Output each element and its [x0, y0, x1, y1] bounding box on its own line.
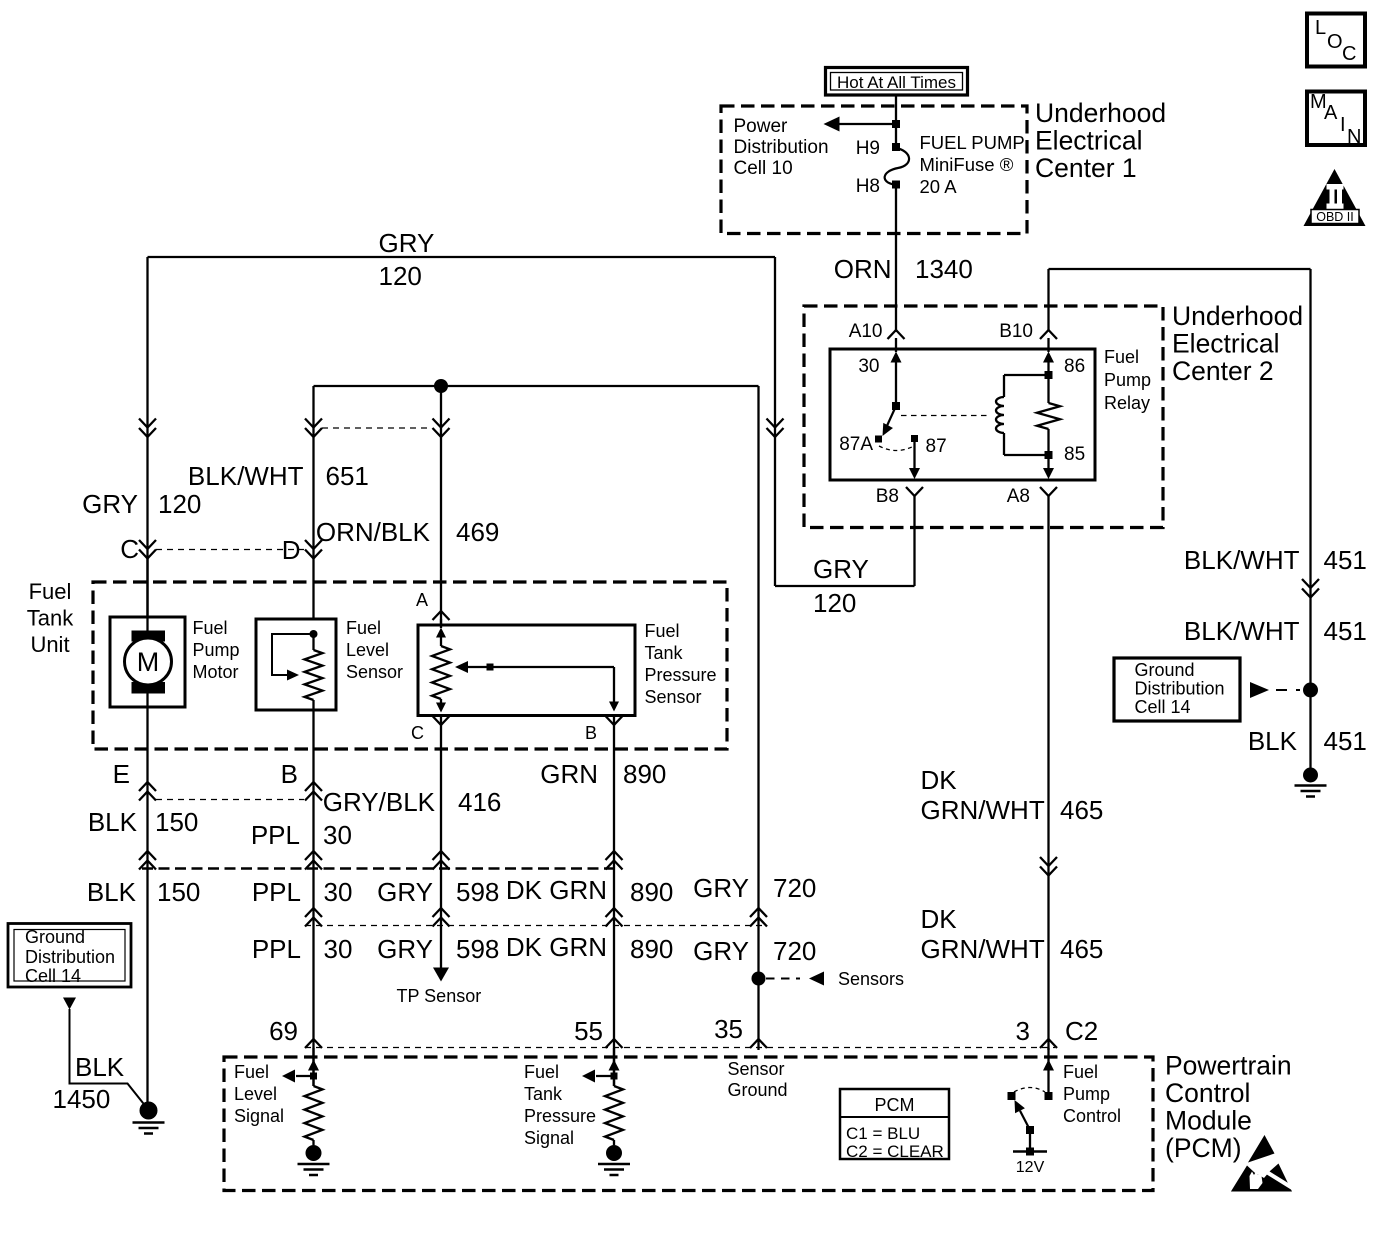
svg-text:Signal: Signal — [524, 1128, 574, 1148]
svg-text:890: 890 — [630, 934, 673, 964]
svg-text:N: N — [1347, 126, 1361, 148]
svg-text:Fuel: Fuel — [346, 618, 381, 638]
relay pin 85 — [1045, 451, 1053, 459]
svg-text:DK: DK — [921, 765, 958, 795]
svg-text:12V: 12V — [1016, 1159, 1045, 1176]
svg-text:Electrical: Electrical — [1035, 126, 1143, 156]
fuel pump motor M1 box — [110, 617, 185, 707]
svg-text:30: 30 — [324, 877, 353, 907]
wire to TP sensor arrow — [433, 968, 449, 982]
svg-text:FUEL PUMP: FUEL PUMP — [920, 132, 1025, 153]
svg-text:C2 = CLEAR: C2 = CLEAR — [846, 1142, 944, 1161]
svg-text:PPL: PPL — [252, 877, 301, 907]
ground symbol fuel level — [306, 1145, 322, 1161]
svg-text:B10: B10 — [999, 321, 1033, 342]
Powertrain Control Module dashed box — [224, 1057, 1153, 1191]
relay box Fuel Pump Relay — [830, 349, 1095, 480]
svg-text:GRY: GRY — [813, 554, 869, 584]
fuel level signal pull-up resistor — [305, 1086, 323, 1140]
ground symbol left — [140, 1102, 158, 1120]
row1 connector BLK 150 — [139, 851, 156, 860]
svg-text:ORN: ORN — [834, 254, 892, 284]
svg-text:C1 = BLU: C1 = BLU — [846, 1124, 920, 1143]
svg-text:598: 598 — [456, 877, 499, 907]
connector mate dashed line E-B — [156, 799, 304, 801]
wire DK GRN/WHT 465 vertical relay A8 to PCM — [1047, 496, 1049, 1050]
motor brush top — [132, 631, 166, 642]
svg-text:A8: A8 — [1007, 486, 1030, 507]
connector mate dashed line 651-469 — [322, 427, 432, 429]
svg-text:3: 3 — [1016, 1016, 1030, 1046]
wire C into motor — [146, 558, 148, 618]
svg-text:L: L — [1315, 17, 1326, 39]
svg-text:GRY: GRY — [379, 228, 435, 258]
svg-text:BLK/WHT: BLK/WHT — [1184, 545, 1300, 575]
svg-text:Fuel: Fuel — [1104, 347, 1139, 367]
svg-text:GRN/WHT: GRN/WHT — [921, 795, 1045, 825]
fuel tank pressure pull-up resistor — [605, 1086, 623, 1140]
wire BLK 150 / motor ground vertical — [146, 706, 148, 1104]
svg-text:651: 651 — [326, 461, 369, 491]
relay internal resistor — [1047, 375, 1049, 403]
relay pin 87 wire to B8 — [913, 442, 915, 469]
Hot At All Times box — [826, 68, 968, 96]
fuel tank pressure signal tap — [611, 1073, 618, 1080]
svg-text:Unit: Unit — [30, 632, 69, 657]
fuel pump control dashed arc — [1014, 1088, 1045, 1093]
dashed link to sensors — [766, 978, 800, 980]
svg-text:Ground: Ground — [1135, 660, 1195, 680]
connector mate dashed line C-D — [156, 549, 304, 551]
wire BLK/WHT 451 right vertical — [1309, 269, 1311, 768]
svg-text:465: 465 — [1060, 934, 1103, 964]
Underhood Electrical Center 2 dashed box — [804, 306, 1163, 528]
svg-text:20 A: 20 A — [920, 176, 958, 197]
junction node BLK 451 — [1303, 683, 1318, 698]
fuel pump control switch pivot — [1008, 1092, 1016, 1100]
OBD II symbol — [1304, 169, 1366, 226]
svg-text:55: 55 — [574, 1016, 603, 1046]
svg-text:Center 1: Center 1 — [1035, 153, 1137, 183]
wire sensor-ground bus horizontal 651/469/720 — [314, 385, 759, 387]
svg-text:30: 30 — [324, 934, 353, 964]
svg-text:Pressure: Pressure — [524, 1106, 596, 1126]
svg-text:Relay: Relay — [1104, 393, 1150, 413]
svg-text:Level: Level — [234, 1084, 277, 1104]
svg-text:598: 598 — [456, 934, 499, 964]
svg-text:M: M — [137, 647, 160, 677]
junction node sensors — [752, 972, 766, 986]
wire GRY 720 sensor ground vertical — [757, 386, 759, 1050]
inline connector BLK/WHT 451 — [1302, 589, 1319, 598]
level sensor junction dot — [310, 630, 318, 638]
relay dashed throw arc — [879, 446, 914, 451]
svg-text:416: 416 — [458, 787, 501, 817]
inline connector row2 dashed — [305, 925, 766, 927]
row1 connector GRY 598 — [433, 851, 450, 860]
relay dashed actuate link — [901, 415, 988, 417]
svg-text:Module: Module — [1165, 1106, 1252, 1136]
svg-text:1340: 1340 — [915, 254, 973, 284]
svg-text:35: 35 — [714, 1014, 743, 1044]
Fuel Tank Unit dashed box — [93, 582, 727, 749]
level sensor resistor — [312, 634, 314, 650]
svg-text:Underhood: Underhood — [1172, 301, 1303, 331]
fuel tank pressure signal wire in PCM — [613, 1048, 615, 1086]
svg-text:720: 720 — [773, 936, 816, 966]
wire GRY 120 riser to relay B8 — [913, 496, 915, 586]
motor wire through — [146, 617, 148, 638]
svg-text:Fuel: Fuel — [193, 618, 228, 638]
junction node ORN/BLK 469 tap — [434, 379, 448, 393]
wire BLK/WHT 651 vertical to pin D — [312, 386, 314, 620]
svg-text:30: 30 — [323, 820, 352, 850]
row2 connector GRY 720 — [750, 908, 767, 917]
svg-text:GRY: GRY — [693, 936, 749, 966]
svg-text:69: 69 — [269, 1016, 298, 1046]
svg-text:PPL: PPL — [252, 934, 301, 964]
fuel level sensor box — [256, 619, 336, 710]
relay switch pivot — [892, 402, 900, 410]
wire B10 riser — [1047, 269, 1049, 331]
wire ORN/BLK 469 vertical to pressure sensor A — [440, 386, 442, 626]
svg-text:BLK: BLK — [88, 807, 138, 837]
svg-text:Tank: Tank — [27, 606, 74, 631]
svg-text:Ground: Ground — [25, 927, 85, 947]
svg-text:C: C — [411, 723, 424, 743]
inline connector ORN/BLK 469 — [433, 428, 450, 437]
wire ORN 1340 / B10 feed horizontal — [1049, 268, 1311, 270]
svg-text:Center 2: Center 2 — [1172, 356, 1274, 386]
svg-text:Tank: Tank — [645, 643, 684, 663]
svg-text:Cell 10: Cell 10 — [734, 158, 793, 179]
Ground Distribution Cell 14 right box — [1114, 658, 1240, 721]
ESD symbol — [1248, 1135, 1275, 1163]
inline connector GRY 120 return — [767, 428, 784, 437]
svg-text:Sensors: Sensors — [838, 969, 904, 989]
svg-text:Hot At All Times: Hot At All Times — [837, 73, 956, 92]
svg-text:GRY/BLK: GRY/BLK — [323, 787, 436, 817]
ground symbol right — [1303, 768, 1318, 783]
svg-text:Distribution: Distribution — [734, 137, 829, 158]
relay coil — [1004, 374, 1049, 376]
svg-text:Pump: Pump — [193, 640, 240, 660]
svg-text:O: O — [1327, 31, 1343, 53]
fuel level signal tap — [310, 1073, 317, 1080]
svg-text:Pump: Pump — [1104, 370, 1151, 390]
svg-text:C2: C2 — [1065, 1016, 1098, 1046]
svg-text:GRY: GRY — [693, 873, 749, 903]
pin H8 — [892, 181, 900, 189]
svg-text:BLK: BLK — [87, 877, 137, 907]
svg-text:30: 30 — [858, 356, 879, 377]
connector 69 — [305, 1039, 322, 1048]
svg-text:87A: 87A — [839, 434, 873, 455]
svg-text:PCM: PCM — [875, 1095, 915, 1115]
motor circle M — [125, 638, 172, 685]
row1 connector DK GRN 890 — [606, 851, 623, 860]
svg-text:H9: H9 — [856, 138, 880, 159]
fuel level signal wire in PCM — [312, 1048, 314, 1086]
off-page arrow Ground Distribution left — [63, 998, 76, 1010]
svg-text:GRN/WHT: GRN/WHT — [921, 934, 1045, 964]
svg-text:GRY: GRY — [377, 934, 433, 964]
svg-text:TP Sensor: TP Sensor — [397, 986, 482, 1006]
wire GRY 120 return vertical — [774, 257, 776, 586]
svg-text:465: 465 — [1060, 795, 1103, 825]
svg-text:A10: A10 — [849, 321, 883, 342]
Underhood Electrical Center 1 dashed box — [721, 106, 1027, 234]
svg-text:Fuel: Fuel — [234, 1062, 269, 1082]
MAIN reference box — [1307, 92, 1365, 146]
Ground Distribution Cell 14 left box — [8, 924, 131, 988]
svg-text:Distribution: Distribution — [1135, 679, 1225, 699]
wire BLK 1450 — [70, 1009, 148, 1108]
svg-text:C: C — [1342, 43, 1356, 65]
svg-text:BLK/WHT: BLK/WHT — [1184, 616, 1300, 646]
svg-text:Fuel: Fuel — [645, 621, 680, 641]
svg-text:A: A — [1324, 102, 1338, 124]
junction node fuse feed — [892, 120, 900, 128]
svg-text:GRY: GRY — [82, 489, 138, 519]
relay switch arm — [886, 406, 896, 428]
svg-text:B: B — [281, 759, 298, 789]
svg-text:DK GRN: DK GRN — [506, 875, 607, 905]
svg-text:C: C — [120, 534, 139, 564]
fuel pump control switch node — [1045, 1092, 1053, 1100]
fuel pump control lower node — [1026, 1126, 1034, 1134]
svg-text:120: 120 — [813, 588, 856, 618]
fuel tank pressure sensor box — [418, 625, 635, 716]
fuel pump control wire in PCM — [1047, 1048, 1049, 1092]
inline connector GRY 120 left — [139, 428, 156, 437]
svg-text:A: A — [416, 590, 428, 610]
svg-text:B8: B8 — [876, 486, 899, 507]
svg-text:E: E — [113, 759, 130, 789]
svg-text:BLK/WHT: BLK/WHT — [188, 461, 304, 491]
svg-text:720: 720 — [773, 873, 816, 903]
svg-text:87: 87 — [926, 436, 947, 457]
wire GRY 120 top horizontal — [148, 256, 776, 258]
svg-text:Tank: Tank — [524, 1084, 563, 1104]
svg-text:Ground: Ground — [728, 1080, 788, 1100]
svg-text:150: 150 — [155, 807, 198, 837]
svg-text:Distribution: Distribution — [25, 947, 115, 967]
svg-text:Control: Control — [1165, 1078, 1250, 1108]
svg-text:MiniFuse ®: MiniFuse ® — [920, 154, 1014, 175]
connector 3 C2 — [1040, 1039, 1057, 1048]
12V supply — [1029, 1130, 1031, 1152]
svg-text:OBD II: OBD II — [1316, 210, 1354, 224]
relay pin 85 wire to A8 — [1047, 459, 1049, 469]
svg-text:Control: Control — [1063, 1106, 1121, 1126]
connector 35 — [750, 1039, 767, 1048]
fuel pump control switch arm — [1020, 1111, 1030, 1130]
svg-text:86: 86 — [1064, 356, 1085, 377]
row1 connector PPL 30 — [305, 851, 322, 860]
wire GRY 120 left vertical to fuel pump — [146, 257, 148, 618]
inline connector row C102 dashed — [142, 867, 620, 870]
relay pin 87A — [875, 436, 882, 443]
relay pin 30 wire and arrow — [891, 352, 902, 363]
LOC reference box — [1307, 14, 1365, 67]
svg-text:Sensor: Sensor — [645, 687, 702, 707]
relay pin 87 — [911, 435, 918, 442]
relay pin 86 — [1045, 371, 1053, 379]
svg-text:DK GRN: DK GRN — [506, 932, 607, 962]
wire A into pressure sensor — [440, 619, 442, 628]
ground symbol pressure signal — [606, 1145, 622, 1161]
PCM ID box — [840, 1089, 949, 1159]
svg-text:H8: H8 — [856, 176, 880, 197]
svg-text:Sensor: Sensor — [346, 662, 403, 682]
svg-text:890: 890 — [623, 759, 666, 789]
svg-text:DK: DK — [921, 904, 958, 934]
arrow to Power Distribution — [838, 123, 896, 125]
svg-text:120: 120 — [158, 489, 201, 519]
row2 connector PPL 30 — [305, 908, 322, 917]
svg-text:Signal: Signal — [234, 1106, 284, 1126]
svg-text:Cell 14: Cell 14 — [1135, 697, 1191, 717]
PCM connector dashed line — [305, 1047, 1055, 1049]
svg-text:PPL: PPL — [251, 820, 300, 850]
inline connector BLK/WHT 651 — [305, 428, 322, 437]
svg-text:ORN/BLK: ORN/BLK — [316, 517, 431, 547]
svg-text:Fuel: Fuel — [1063, 1062, 1098, 1082]
svg-text:Underhood: Underhood — [1035, 98, 1166, 128]
svg-text:B: B — [585, 723, 597, 743]
pressure sensor transducer — [436, 628, 446, 638]
off-page arrow Ground Distribution right — [1250, 682, 1269, 698]
svg-text:Pump: Pump — [1063, 1084, 1110, 1104]
wire GRY 120 lower horizontal B8 to return — [775, 585, 915, 587]
svg-text:469: 469 — [456, 517, 499, 547]
svg-text:150: 150 — [157, 877, 200, 907]
row2 connector GRY 598 — [433, 908, 450, 917]
svg-text:Motor: Motor — [193, 662, 239, 682]
wire PPL 30 fuel level signal vertical — [312, 709, 314, 1086]
wire GRY/BLK 416 / GRY 598 vertical to TP sensor — [440, 716, 442, 968]
svg-text:I: I — [1340, 114, 1346, 136]
wire GRN 890 / DK GRN 890 vertical pressure signal — [613, 716, 615, 1086]
svg-text:Pressure: Pressure — [645, 665, 717, 685]
svg-text:120: 120 — [379, 261, 422, 291]
motor brush bottom — [132, 682, 166, 694]
pressure sensor wiper — [455, 661, 468, 673]
pin H9 — [892, 143, 900, 151]
svg-text:Cell 14: Cell 14 — [25, 966, 81, 986]
svg-text:(PCM): (PCM) — [1165, 1133, 1242, 1163]
svg-text:Level: Level — [346, 640, 389, 660]
svg-text:BLK: BLK — [75, 1052, 125, 1082]
svg-text:BLK: BLK — [1248, 726, 1298, 756]
svg-text:Sensor: Sensor — [728, 1059, 785, 1079]
wire ORN 1340 vertical from fuse — [895, 95, 897, 147]
connector 55 — [606, 1039, 623, 1048]
svg-text:890: 890 — [630, 877, 673, 907]
svg-text:1450: 1450 — [53, 1084, 111, 1114]
svg-text:GRY: GRY — [377, 877, 433, 907]
svg-text:Electrical: Electrical — [1172, 329, 1280, 359]
inline connector DK GRN/WHT 465 — [1040, 867, 1057, 876]
svg-text:Fuel: Fuel — [524, 1062, 559, 1082]
level sensor wiper loop — [272, 634, 314, 675]
svg-text:451: 451 — [1324, 545, 1367, 575]
svg-text:451: 451 — [1324, 616, 1367, 646]
svg-text:Power: Power — [734, 116, 789, 137]
svg-text:Fuel: Fuel — [29, 579, 72, 604]
fuse FUEL PUMP MiniFuse 20A — [885, 148, 909, 185]
svg-text:85: 85 — [1064, 444, 1085, 465]
wire B10 into relay — [1047, 338, 1049, 352]
svg-text:Powertrain: Powertrain — [1165, 1051, 1292, 1081]
wire A10 into relay — [895, 338, 897, 352]
svg-text:451: 451 — [1324, 726, 1367, 756]
row2 connector DK GRN 890 — [606, 908, 623, 917]
svg-text:GRN: GRN — [540, 759, 598, 789]
